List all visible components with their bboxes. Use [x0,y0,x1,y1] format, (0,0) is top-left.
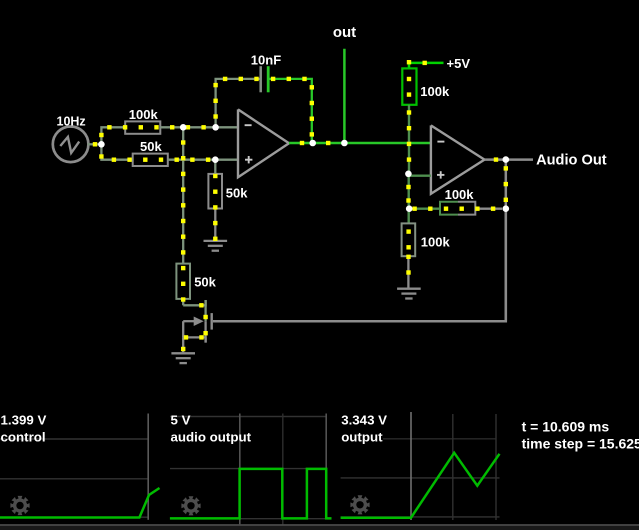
svg-text:50k: 50k [194,275,216,290]
svg-text:audio output: audio output [171,429,252,444]
svg-text:t = 10.609 ms: t = 10.609 ms [522,418,610,434]
svg-text:50k: 50k [226,186,248,201]
svg-text:100k: 100k [129,107,159,122]
svg-text:100k: 100k [445,187,475,202]
svg-text:control: control [1,429,46,444]
svg-text:3.343 V: 3.343 V [341,413,387,428]
svg-text:10nF: 10nF [251,53,281,68]
svg-text:5 V: 5 V [171,413,191,428]
svg-text:50k: 50k [140,139,162,154]
svg-text:1.399 V: 1.399 V [1,413,47,428]
svg-text:output: output [341,429,383,444]
svg-text:+5V: +5V [447,56,471,71]
svg-text:out: out [333,24,356,41]
svg-text:Audio Out: Audio Out [536,153,607,169]
svg-text:time step = 15.625 µs: time step = 15.625 µs [522,436,639,452]
svg-text:10Hz: 10Hz [57,114,86,128]
svg-text:100k: 100k [420,84,450,99]
svg-text:100k: 100k [421,235,451,250]
